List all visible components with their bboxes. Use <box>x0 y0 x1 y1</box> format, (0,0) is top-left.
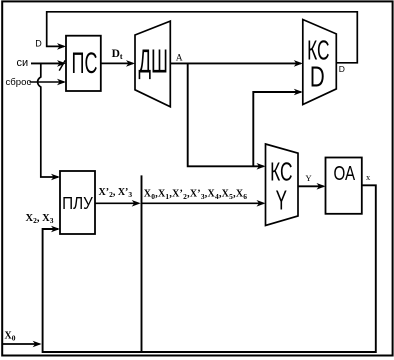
wire: branch from A line down and right to KC Y upper input <box>188 63 264 166</box>
block ДШ (decoder) trapezoid <box>135 21 170 107</box>
svg-text:КС: КС <box>270 157 292 186</box>
svg-text:ОА: ОА <box>334 162 356 185</box>
node arrow into PS (си) <box>57 60 66 67</box>
svg-text:A: A <box>176 54 183 64</box>
svg-text:D: D <box>310 62 325 93</box>
wire: PLU output to bus vertical <box>95 202 139 204</box>
wire: сброс input line <box>30 81 65 83</box>
block КС Y (combinational circuit Y) trapezoid <box>266 144 299 226</box>
svg-text:ПС: ПС <box>72 48 98 81</box>
block ОА rect <box>326 158 362 214</box>
svg-text:сброс: сброс <box>6 77 32 88</box>
block ПС (register) <box>66 36 101 91</box>
node slash on си clock input <box>59 60 65 70</box>
wire: bus vertical line (stub above, down to bottom wire) <box>141 175 143 352</box>
node arrow into PLU lower input <box>51 226 60 233</box>
svg-text:Y: Y <box>306 173 312 183</box>
node arrow into PLU upper input <box>51 174 60 181</box>
svg-text:Y: Y <box>276 184 287 215</box>
svg-text:X0: X0 <box>5 330 16 342</box>
block КС D (combinational circuit D) trapezoid <box>303 20 337 105</box>
node arrow into DSh <box>126 60 135 67</box>
block ПЛУ rect <box>60 171 95 234</box>
svg-text:X’2, X’3: X’2, X’3 <box>99 187 133 199</box>
wire: branch up from KC Y input line to KC D lower input <box>253 92 300 166</box>
svg-text:ПЛУ: ПЛУ <box>62 193 93 213</box>
node arrow into KC Y lower input <box>257 200 266 207</box>
node arrow into left vertical wire <box>33 341 42 348</box>
node arrow into KC D upper input <box>294 60 303 67</box>
wire: top feedback D from KC D output <box>47 12 358 63</box>
node arrow into KC Y upper input <box>257 163 266 170</box>
node arrow into OA <box>317 183 326 190</box>
svg-text:КС: КС <box>307 34 329 65</box>
wire: OA output x, down, along bottom, up left side to PLU lower input <box>43 185 376 352</box>
node arrow into PS (сброс) <box>57 79 66 86</box>
svg-text:D: D <box>35 39 42 49</box>
wire: vertical branch from си line down to PLU upper input (with hop over сброс) <box>38 63 58 177</box>
wire: A line from DSh to KC D <box>170 62 300 64</box>
svg-text:D: D <box>339 64 345 74</box>
svg-text:си: си <box>17 57 29 69</box>
node arrow into KC D lower input <box>294 89 303 96</box>
wire: си input line <box>31 62 64 64</box>
svg-text:x: x <box>366 172 371 182</box>
svg-text:ДШ: ДШ <box>138 43 167 80</box>
wire: X0 input line from left frame <box>3 343 40 345</box>
svg-text:Dt: Dt <box>112 48 123 61</box>
wire: bus horizontal to KC Y lower input <box>142 202 264 204</box>
wire: Y output from KC Y to OA <box>298 185 324 187</box>
svg-text:X2, X3: X2, X3 <box>26 213 54 225</box>
node arrow into bus vertical <box>132 200 141 207</box>
svg-text:X0,X1,X’2,X’3,X4,X5,X6: X0,X1,X’2,X’3,X4,X5,X6 <box>144 189 247 201</box>
wire: PS output Dt to DSh <box>101 62 133 64</box>
node D input arrow into PS <box>57 43 66 50</box>
